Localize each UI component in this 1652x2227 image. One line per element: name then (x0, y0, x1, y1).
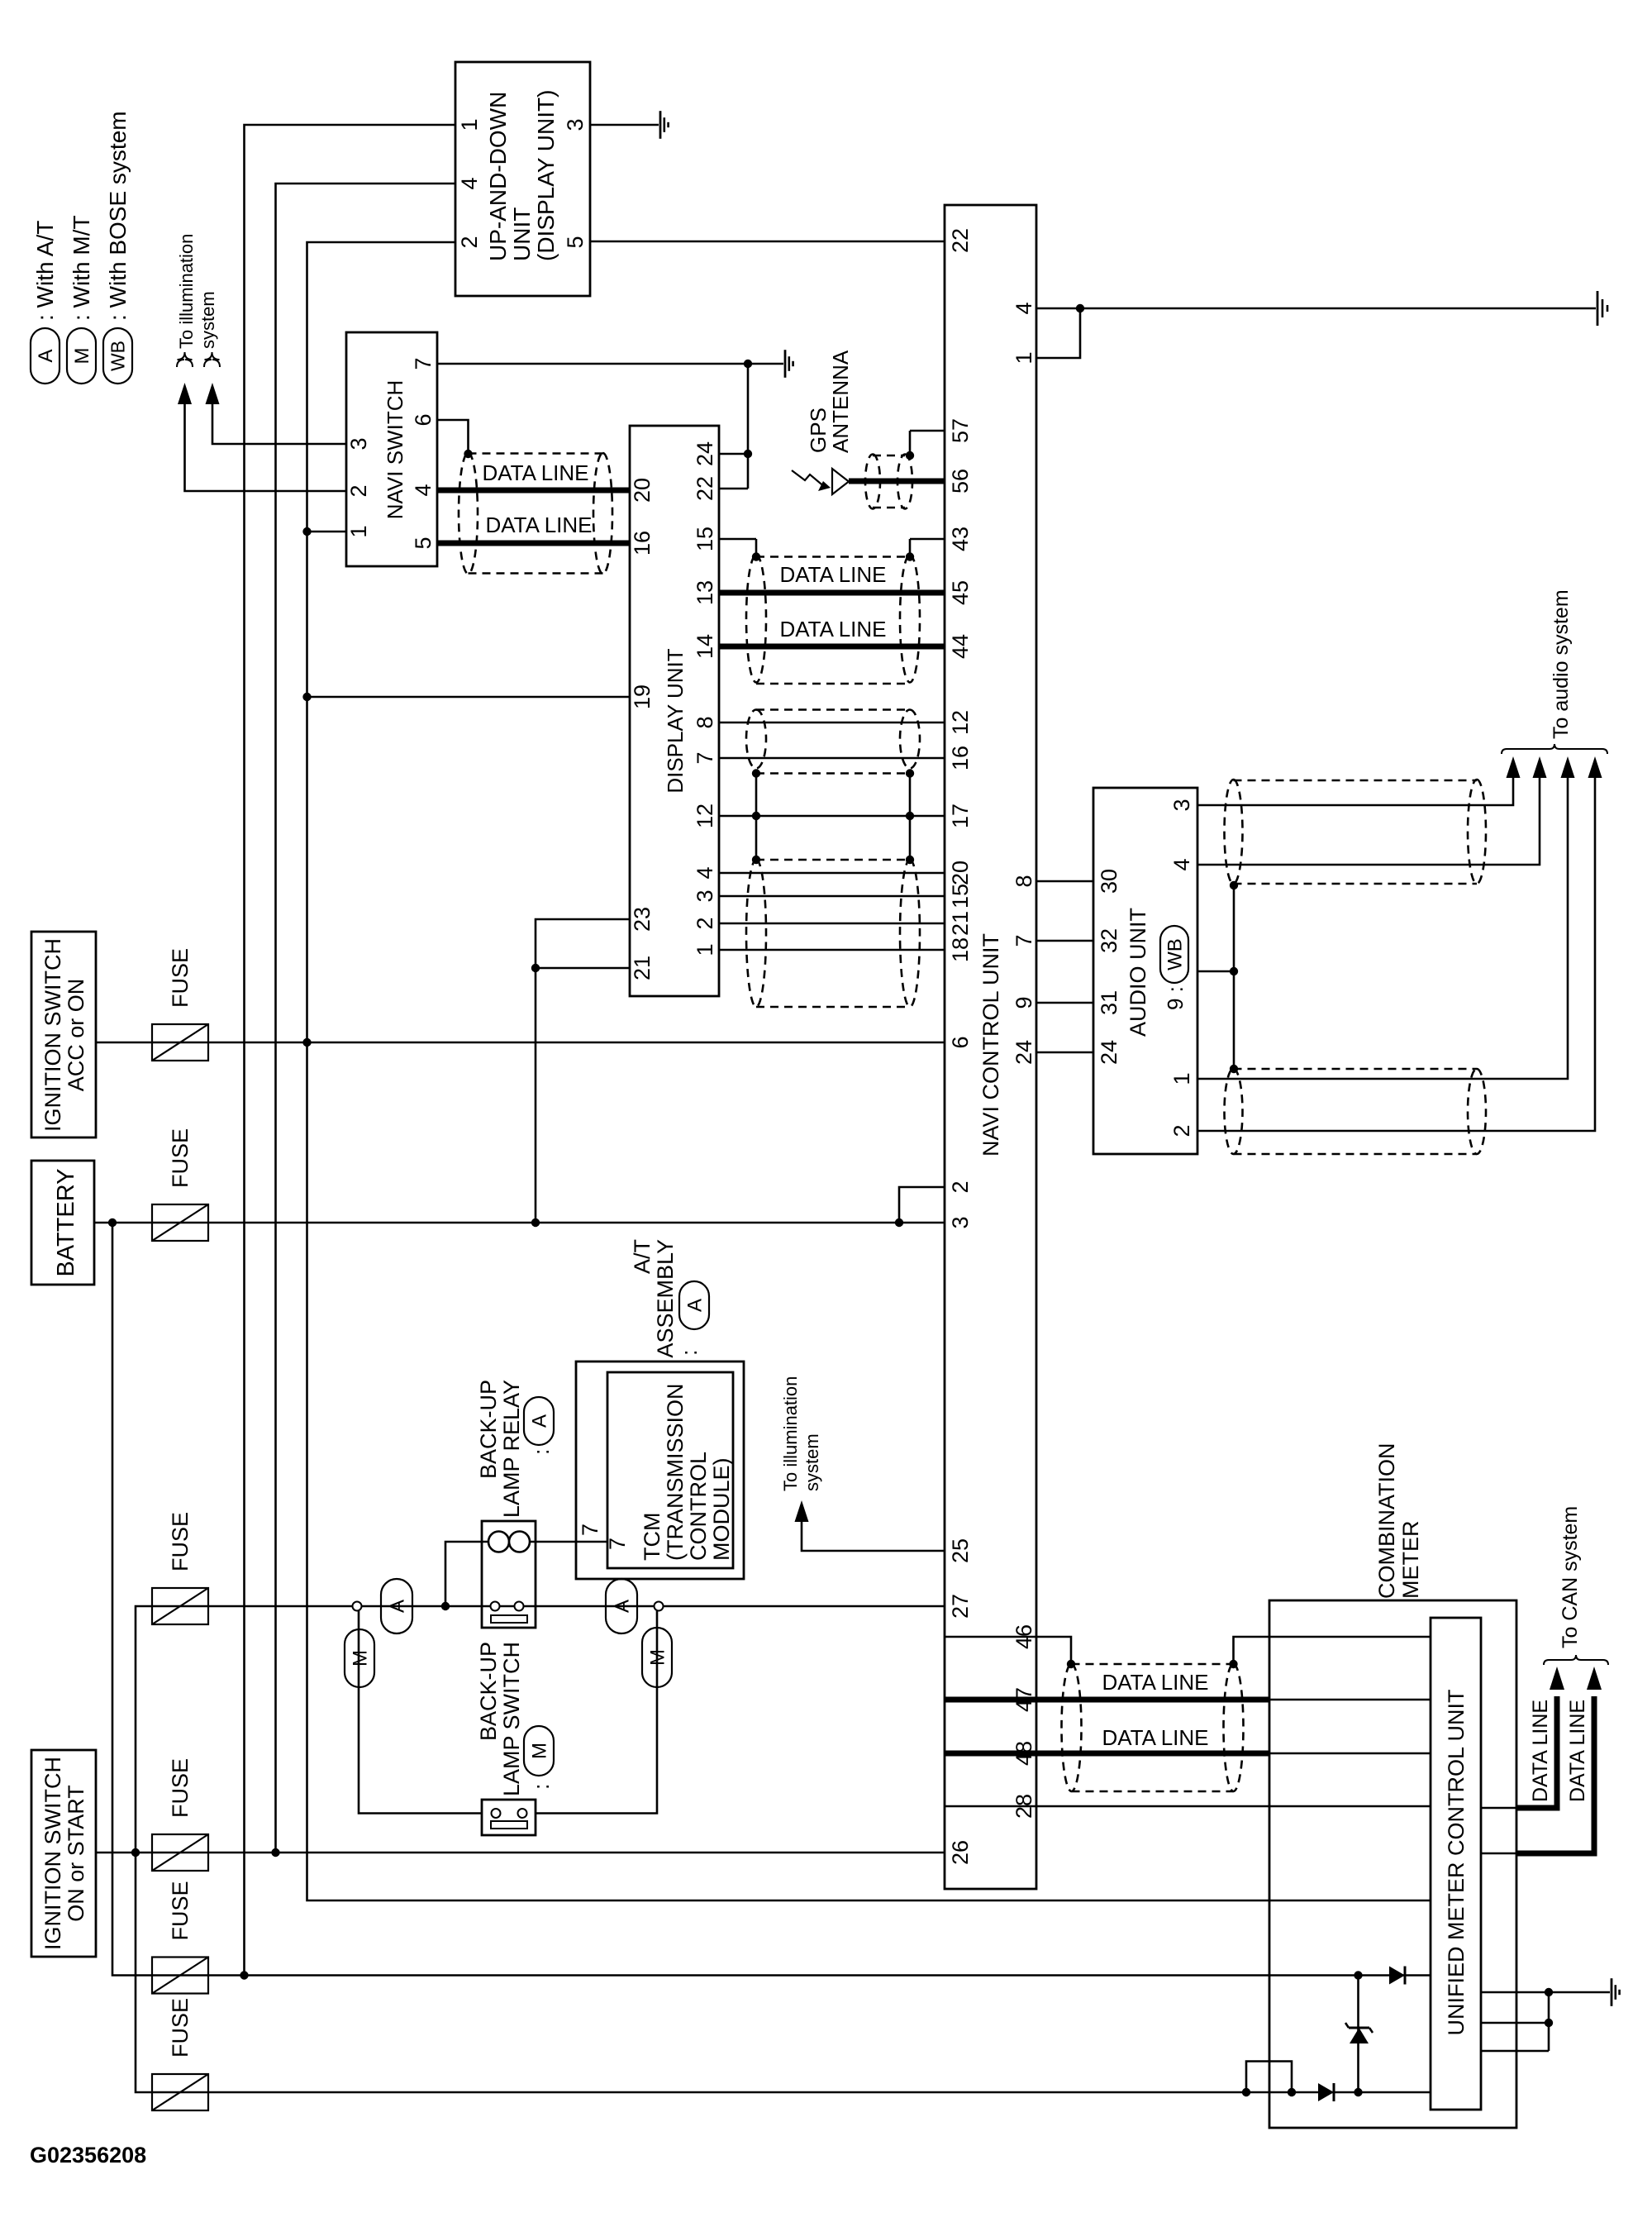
svg-text:16: 16 (630, 531, 655, 556)
svg-text:7: 7 (605, 1538, 630, 1550)
svg-text:12: 12 (948, 710, 973, 735)
svg-text:DATA LINE: DATA LINE (779, 562, 886, 587)
svg-text:WB: WB (107, 341, 129, 371)
svg-text:A: A (611, 1600, 633, 1613)
svg-text:METER: METER (1398, 1521, 1423, 1600)
svg-text:32: 32 (1097, 928, 1121, 953)
svg-text:UNIFIED METER CONTROL UNIT: UNIFIED METER CONTROL UNIT (1444, 1689, 1469, 2035)
svg-text:57: 57 (948, 418, 973, 443)
svg-text:20: 20 (948, 861, 973, 885)
svg-text:A: A (35, 349, 57, 362)
svg-text:: With A/T: : With A/T (32, 221, 58, 321)
svg-text:8: 8 (1012, 875, 1036, 887)
svg-text:26: 26 (948, 1840, 973, 1865)
svg-text:To CAN system: To CAN system (1559, 1506, 1582, 1648)
svg-text:BACK-UP: BACK-UP (476, 1642, 501, 1741)
svg-text:LAMP SWITCH: LAMP SWITCH (499, 1642, 524, 1796)
svg-text:DISPLAY UNIT: DISPLAY UNIT (663, 648, 688, 793)
svg-text:8: 8 (693, 716, 717, 728)
svg-text:24: 24 (693, 441, 717, 466)
svg-text:DATA LINE: DATA LINE (1102, 1670, 1208, 1695)
svg-text:G02356208: G02356208 (30, 2143, 146, 2167)
svg-text:A: A (386, 1600, 408, 1613)
svg-text:5: 5 (411, 536, 436, 549)
svg-text:5: 5 (563, 236, 588, 248)
svg-text:ANTENNA: ANTENNA (828, 350, 853, 453)
svg-text:DATA LINE: DATA LINE (482, 460, 588, 485)
svg-text:DATA LINE: DATA LINE (1566, 1700, 1589, 1802)
svg-text:To illumination: To illumination (780, 1376, 801, 1491)
svg-text:1: 1 (1012, 351, 1036, 364)
svg-text:DATA LINE: DATA LINE (779, 617, 886, 641)
svg-text:ASSEMBLY: ASSEMBLY (653, 1239, 678, 1358)
svg-text:FUSE: FUSE (168, 948, 193, 1008)
svg-text:UNIT: UNIT (509, 207, 535, 261)
svg-text:TCM: TCM (640, 1513, 664, 1561)
svg-text:To audio system: To audio system (1550, 589, 1573, 739)
svg-text:system: system (802, 1433, 822, 1491)
svg-text:31: 31 (1097, 990, 1121, 1015)
svg-text:FUSE: FUSE (168, 1128, 193, 1188)
svg-text:27: 27 (948, 1594, 973, 1619)
svg-text:25: 25 (948, 1538, 973, 1563)
svg-text:23: 23 (630, 907, 655, 932)
svg-text:FUSE: FUSE (168, 1998, 193, 2058)
svg-text:IGNITION SWITCH: IGNITION SWITCH (40, 1757, 65, 1950)
svg-text:6: 6 (948, 1036, 973, 1048)
svg-text:AUDIO UNIT: AUDIO UNIT (1126, 908, 1150, 1037)
svg-text:21: 21 (630, 956, 655, 980)
svg-text:M: M (646, 1649, 669, 1666)
svg-text:15: 15 (948, 884, 973, 908)
svg-text:: With M/T: : With M/T (69, 215, 94, 321)
svg-text:: With BOSE system: : With BOSE system (105, 111, 131, 321)
svg-text:22: 22 (948, 228, 973, 253)
svg-text:1: 1 (693, 943, 717, 956)
svg-text:22: 22 (693, 476, 717, 501)
svg-text:2: 2 (1169, 1124, 1194, 1137)
svg-text::: : (529, 1448, 554, 1455)
svg-text:DATA LINE: DATA LINE (1102, 1725, 1208, 1750)
svg-text:56: 56 (948, 469, 973, 494)
svg-text:LAMP RELAY: LAMP RELAY (499, 1380, 524, 1518)
svg-text:(TRANSMISSION: (TRANSMISSION (663, 1383, 688, 1561)
svg-text:WB: WB (1164, 938, 1186, 970)
svg-text:M: M (71, 348, 93, 365)
svg-text:4: 4 (457, 177, 482, 189)
svg-text:ON or START: ON or START (64, 1785, 88, 1922)
svg-text:3: 3 (346, 437, 371, 450)
svg-text:NAVI SWITCH: NAVI SWITCH (383, 380, 407, 520)
svg-text:M: M (349, 1650, 371, 1667)
svg-text:14: 14 (693, 634, 717, 659)
svg-text:6: 6 (411, 413, 436, 426)
svg-text:FUSE: FUSE (168, 1512, 193, 1571)
svg-text:16: 16 (948, 746, 973, 770)
svg-text:7: 7 (578, 1524, 602, 1536)
svg-text:9 :: 9 : (1163, 986, 1188, 1010)
svg-text:43: 43 (948, 527, 973, 551)
svg-text:4: 4 (1012, 302, 1036, 314)
svg-text:CONTROL: CONTROL (686, 1452, 711, 1561)
svg-text:12: 12 (693, 804, 717, 828)
svg-text:7: 7 (693, 751, 717, 764)
svg-text:2: 2 (457, 236, 482, 248)
svg-text:FUSE: FUSE (168, 1758, 193, 1818)
svg-text:7: 7 (1012, 934, 1036, 947)
svg-text::: : (529, 1783, 554, 1790)
svg-text:18: 18 (948, 937, 973, 962)
svg-text:1: 1 (1169, 1072, 1194, 1085)
svg-text:A: A (683, 1299, 706, 1312)
svg-text:MODULE): MODULE) (709, 1457, 734, 1561)
svg-text:4: 4 (1169, 858, 1194, 870)
svg-text:19: 19 (630, 684, 655, 709)
svg-text:45: 45 (948, 580, 973, 605)
svg-text:A: A (528, 1414, 550, 1428)
svg-text:4: 4 (411, 484, 436, 496)
svg-text:7: 7 (411, 357, 436, 370)
svg-text:3: 3 (693, 889, 717, 902)
svg-text:2: 2 (693, 917, 717, 929)
svg-text:NAVI CONTROL UNIT: NAVI CONTROL UNIT (978, 933, 1003, 1156)
svg-text:4: 4 (693, 866, 717, 879)
svg-text:(DISPLAY UNIT): (DISPLAY UNIT) (533, 90, 559, 261)
svg-text:DATA LINE: DATA LINE (1529, 1700, 1552, 1802)
svg-text:2: 2 (948, 1180, 973, 1193)
svg-text:ACC or ON: ACC or ON (64, 979, 88, 1092)
svg-text:FUSE: FUSE (168, 1881, 193, 1940)
svg-text:44: 44 (948, 634, 973, 659)
svg-text:system: system (198, 291, 218, 349)
svg-text:BATTERY: BATTERY (53, 1168, 79, 1276)
svg-text:9: 9 (1012, 996, 1036, 1009)
svg-text:3: 3 (948, 1216, 973, 1228)
svg-text:20: 20 (630, 478, 655, 503)
svg-text:BACK-UP: BACK-UP (476, 1380, 501, 1479)
svg-text:3: 3 (563, 118, 588, 131)
svg-text:24: 24 (1097, 1040, 1121, 1065)
svg-text:1: 1 (346, 525, 371, 537)
svg-text::: : (677, 1349, 702, 1356)
svg-text:IGNITION SWITCH: IGNITION SWITCH (40, 938, 65, 1132)
svg-text:24: 24 (1012, 1040, 1036, 1065)
svg-text:1: 1 (457, 118, 482, 131)
svg-text:To illumination: To illumination (176, 234, 197, 349)
svg-text:3: 3 (1169, 799, 1194, 811)
svg-text:M: M (528, 1743, 550, 1759)
svg-text:UP-AND-DOWN: UP-AND-DOWN (485, 92, 511, 261)
svg-text:21: 21 (948, 911, 973, 936)
svg-text:GPS: GPS (806, 408, 831, 453)
svg-text:13: 13 (693, 580, 717, 605)
svg-text:17: 17 (948, 804, 973, 828)
svg-text:30: 30 (1097, 869, 1121, 894)
svg-text:COMBINATION: COMBINATION (1374, 1443, 1399, 1600)
svg-text:A/T: A/T (630, 1239, 655, 1274)
svg-text:DATA LINE: DATA LINE (485, 513, 592, 537)
svg-text:2: 2 (346, 484, 371, 497)
svg-text:15: 15 (693, 527, 717, 551)
